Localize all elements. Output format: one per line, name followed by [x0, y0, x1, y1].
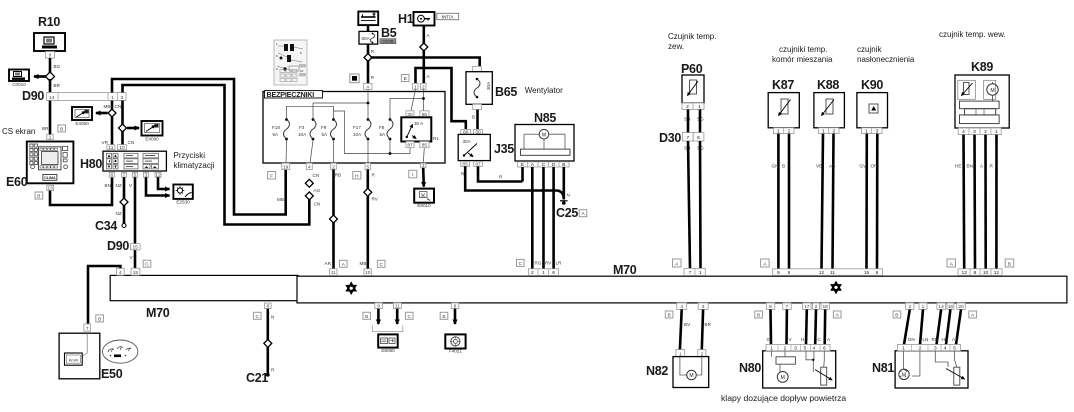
- fuse box top pin 2: [421, 83, 426, 90]
- svg-text:E50: E50: [101, 367, 123, 381]
- wire OR K90 to M70: [871, 134, 879, 269]
- arrow to E4090: [127, 127, 139, 130]
- svg-text:1: 1: [922, 304, 925, 310]
- svg-text:LR: LR: [556, 261, 563, 266]
- svg-text:1: 1: [542, 270, 545, 276]
- junction node on R10 wire: [45, 72, 54, 81]
- svg-text:9: 9: [777, 270, 780, 276]
- svg-text:B: B: [98, 316, 101, 322]
- svg-text:NZ: NZ: [116, 211, 122, 216]
- connector tag B: [665, 311, 673, 319]
- svg-text:2: 2: [686, 104, 689, 110]
- svg-text:18: 18: [823, 304, 829, 310]
- svg-text:B: B: [1008, 261, 1011, 267]
- labels on fan wires: [535, 261, 563, 266]
- sensor P60: [681, 62, 704, 103]
- connector tag B: [1005, 259, 1014, 267]
- svg-text:GV: GV: [860, 164, 868, 169]
- svg-text:4: 4: [308, 164, 311, 170]
- wire B5 junction to B65: [371, 58, 480, 67]
- svg-text:17: 17: [804, 304, 810, 310]
- svg-text:5: 5: [788, 270, 791, 276]
- M70 bottom pins 4 3 N82: [677, 303, 708, 310]
- svg-text:BG: BG: [54, 64, 61, 69]
- label czujnik naslonecznienia: [857, 45, 915, 64]
- svg-text:1: 1: [49, 135, 52, 141]
- junction node on C21 wire: [264, 339, 272, 347]
- svg-text:14: 14: [49, 95, 55, 101]
- svg-text:E60: E60: [6, 175, 28, 189]
- wire arrow to F4021: [454, 309, 457, 324]
- svg-text:M: M: [689, 373, 693, 379]
- svg-text:I: I: [412, 172, 413, 178]
- fuse F8 5A: [379, 118, 393, 140]
- svg-text:M70: M70: [146, 306, 170, 320]
- svg-text:CLIMA: CLIMA: [44, 176, 56, 180]
- M70 top pins 7 1 P60: [684, 268, 705, 276]
- wire DN to N81: [904, 309, 915, 344]
- svg-text:VB: VB: [816, 164, 822, 169]
- junction nodes on fuse pin4 wire: [305, 179, 313, 200]
- wire E60 pin13 to H80 pin6: [50, 177, 112, 205]
- svg-text:4: 4: [944, 346, 947, 352]
- relay J35: [458, 129, 514, 167]
- wire SG P60 to D30: [699, 109, 702, 132]
- svg-text:30A: 30A: [486, 81, 491, 90]
- wire HN to N81: [942, 309, 951, 344]
- svg-text:8: 8: [974, 270, 977, 276]
- wire H80 pin7 to ground C34: [116, 177, 125, 224]
- wire N J35 pin85 to C25: [461, 166, 570, 199]
- svg-text:E4050: E4050: [75, 121, 89, 126]
- svg-text:B: B: [37, 194, 40, 200]
- svg-text:CN: CN: [314, 202, 321, 207]
- M70 top pin 15: [131, 268, 140, 276]
- svg-text:czujnik temp. wew.: czujnik temp. wew.: [939, 30, 1006, 39]
- svg-text:6: 6: [697, 135, 700, 141]
- actuator N80: [739, 345, 836, 389]
- label Przyciski klimatyzacji: [174, 151, 215, 170]
- wire N85 pinA to M70: [531, 167, 534, 269]
- svg-text:85: 85: [422, 143, 428, 149]
- sensor K88: [814, 78, 845, 128]
- harness M70 right segment: [297, 276, 1067, 303]
- svg-text:H: H: [801, 337, 804, 342]
- pin strip of N85: [518, 162, 570, 168]
- wire A to N80: [825, 309, 831, 344]
- pin 1 of E60: [42, 126, 53, 141]
- connector tag F: [268, 172, 276, 180]
- svg-text:NZ: NZ: [116, 183, 122, 188]
- svg-text:VR: VR: [102, 140, 109, 145]
- svg-text:LN: LN: [923, 337, 929, 342]
- svg-text:zew.: zew.: [668, 42, 684, 51]
- connector tag C: [517, 259, 525, 267]
- wire N85 pinC to M70: [542, 167, 545, 269]
- svg-text:komór mieszania: komór mieszania: [772, 55, 833, 64]
- connector tag A: [969, 311, 977, 319]
- svg-text:RV: RV: [545, 261, 552, 266]
- pins 4 3 2 1 of K89: [958, 128, 1001, 135]
- svg-text:M: M: [990, 88, 994, 94]
- svg-text:4: 4: [680, 304, 683, 310]
- wire V to N80: [787, 309, 793, 344]
- svg-text:N81: N81: [872, 361, 894, 375]
- svg-text:E8080: E8080: [381, 348, 395, 353]
- svg-text:F8: F8: [379, 125, 385, 130]
- instrument cluster E50: [59, 333, 123, 381]
- wire D90 pin14 to E60 pin1: [49, 101, 52, 135]
- fuse F3 10A: [298, 118, 316, 140]
- svg-text:H1: H1: [398, 12, 414, 26]
- wire AN to N81: [952, 309, 961, 344]
- wire fuse pin1 loop to J35 pin 86: [416, 68, 466, 129]
- svg-text:C25: C25: [556, 206, 578, 220]
- wire R B5 to fuse pin A: [368, 60, 375, 83]
- pin 6 of H80: [105, 172, 115, 188]
- svg-text:M70: M70: [613, 263, 637, 277]
- svg-text:30A: 30A: [463, 139, 472, 144]
- fuse box top pin A: [364, 83, 372, 90]
- wire D90 pin1 down to H80 pin11: [102, 101, 113, 145]
- connector strip D90: [22, 89, 126, 103]
- fuse F18 5A: [272, 118, 290, 140]
- svg-text:K87: K87: [772, 78, 794, 92]
- sensor display E4090: [142, 121, 163, 142]
- svg-text:AB: AB: [829, 164, 835, 169]
- actuator N81: [872, 345, 968, 389]
- connector tag C: [143, 260, 151, 268]
- svg-text:15: 15: [864, 270, 870, 276]
- svg-text:MB: MB: [360, 261, 367, 266]
- svg-text:nasłonecznienia: nasłonecznienia: [857, 55, 915, 64]
- fuse box bottom pin 1: [421, 163, 426, 169]
- svg-text:CS ekran: CS ekran: [2, 127, 35, 136]
- wire SG D30 to M70: [699, 141, 702, 269]
- sensor K90: [857, 78, 888, 128]
- pin 3 of H80: [144, 172, 149, 178]
- svg-text:RN: RN: [932, 337, 939, 342]
- svg-text:1: 1: [111, 95, 114, 101]
- svg-text:OR: OR: [871, 164, 879, 169]
- pin 7 of H80: [116, 172, 127, 188]
- svg-text:D90: D90: [107, 239, 129, 253]
- svg-text:BN: BN: [967, 164, 973, 169]
- pins 1 2 of K87: [774, 128, 795, 135]
- svg-text:Km/h: Km/h: [69, 358, 78, 363]
- wire SN P60 to D30: [687, 109, 690, 132]
- battery A1: [358, 12, 378, 26]
- svg-text:M: M: [781, 375, 785, 381]
- label Czujnik temp. zew.: [668, 32, 716, 51]
- wire B K87 to M70: [782, 134, 789, 269]
- connector tag A: [579, 210, 587, 218]
- svg-text:N80: N80: [739, 361, 761, 375]
- terminal C21: [246, 371, 270, 385]
- harness M70 left segment: [110, 275, 298, 300]
- wire CN loop D90 pin3 to fuse pin4: [123, 85, 310, 225]
- svg-text:CN: CN: [313, 173, 320, 178]
- wire BR junction to D90: [50, 79, 61, 93]
- svg-text:AN: AN: [952, 337, 958, 342]
- wire R J35 pin87 to N85 pinE: [478, 166, 523, 181]
- fuse F17 10A: [353, 118, 371, 140]
- junction node on RB wire: [330, 215, 338, 223]
- connector tag A: [947, 259, 956, 267]
- fuse box bottom pin 2: [331, 163, 337, 170]
- sensor K89: [955, 60, 1009, 128]
- wire M70 pin4 to E50 pin7: [88, 266, 120, 324]
- internal wiring of fuse box: [286, 89, 424, 163]
- svg-text:czujnik: czujnik: [857, 45, 882, 54]
- svg-text:7: 7: [686, 135, 689, 141]
- svg-text:C010B: C010B: [382, 40, 394, 44]
- wire BG R10 to junction: [50, 58, 61, 74]
- svg-text:K90: K90: [861, 78, 883, 92]
- connector tag C: [377, 260, 385, 268]
- svg-text:RG: RG: [535, 261, 542, 266]
- pins 1 2 of K88: [819, 128, 840, 135]
- diagnostic module R10: [34, 15, 65, 51]
- svg-text:C34: C34: [95, 219, 117, 233]
- pins 1 2 of N82: [676, 350, 706, 358]
- wire BV to N82: [680, 309, 691, 349]
- svg-text:3: 3: [794, 346, 797, 352]
- svg-text:R1: R1: [433, 136, 439, 141]
- wire GN K87 to M70: [772, 134, 779, 269]
- M70 top pin 11: [329, 269, 337, 276]
- black marker box: [350, 74, 359, 83]
- pins 1 3 of K90: [862, 128, 883, 135]
- svg-text:klimatyzacji: klimatyzacji: [174, 161, 215, 170]
- connector tag B: [96, 315, 104, 323]
- sensor K87: [768, 78, 799, 128]
- svg-text:H: H: [355, 173, 359, 179]
- svg-text:10: 10: [983, 270, 989, 276]
- svg-text:G: G: [767, 337, 771, 342]
- wire R K89 to M70: [990, 135, 997, 269]
- svg-text:6: 6: [552, 270, 555, 276]
- svg-text:1: 1: [699, 270, 702, 276]
- svg-text:F18: F18: [272, 125, 280, 130]
- junction node to E4050: [108, 109, 116, 117]
- svg-text:DN: DN: [908, 337, 915, 342]
- svg-text:10A: 10A: [353, 132, 362, 137]
- svg-text:15: 15: [133, 270, 139, 276]
- svg-text:6: 6: [110, 172, 113, 178]
- M70 bottom pins 14 16 20 N81: [937, 303, 965, 310]
- wire arrows to E8080: [372, 309, 403, 332]
- actuator N82: [646, 357, 709, 388]
- svg-text:BN: BN: [105, 183, 111, 188]
- arrow to E4050: [96, 112, 108, 115]
- wire R from B5: [368, 44, 375, 55]
- svg-text:10A: 10A: [298, 132, 307, 137]
- svg-text:GN: GN: [772, 164, 779, 169]
- svg-text:B: B: [442, 314, 445, 320]
- wire N M70 to C21: [268, 309, 275, 374]
- svg-text:1: 1: [698, 104, 701, 110]
- label czujniki temp. komor mieszania: [772, 45, 833, 64]
- svg-text:K88: K88: [817, 78, 839, 92]
- connector D90 pin15: [107, 239, 140, 253]
- fuse F9 5A: [321, 118, 337, 140]
- pin 10 of H80: [118, 145, 127, 151]
- M70 bottom pin 11: [393, 303, 401, 310]
- svg-text:klapy dozujące dopływ powietrz: klapy dozujące dopływ powietrza: [721, 393, 846, 403]
- svg-text:D30: D30: [659, 131, 681, 145]
- svg-text:BV: BV: [684, 322, 691, 327]
- wire fuse pin5 to M70 pin10: [360, 170, 379, 269]
- fuse box bottom pin 19: [282, 163, 290, 170]
- svg-text:9: 9: [49, 53, 52, 59]
- svg-text:H80: H80: [80, 157, 102, 171]
- svg-text:B: B: [365, 314, 368, 320]
- junction dots inside fuse box: [367, 97, 425, 155]
- svg-text:C: C: [255, 314, 259, 320]
- wire SN D30 to M70: [688, 141, 690, 269]
- lamp E2530: [173, 185, 192, 205]
- fuse box bottom pin 5: [365, 163, 371, 170]
- svg-text:B: B: [60, 126, 63, 132]
- gauge oval of E50: [103, 340, 138, 363]
- control unit F4021: [445, 334, 465, 353]
- wire B B65 to J35 pin30: [472, 110, 478, 130]
- pin 12 of H80: [155, 172, 161, 178]
- pin 9 of R10: [46, 52, 55, 59]
- wire N85 pinB to C25: [562, 167, 565, 200]
- wire D90 pin3 down to H80 pin10: [115, 101, 135, 145]
- control panel H80: [80, 151, 166, 171]
- pin 11 of H80: [107, 145, 115, 151]
- svg-text:7: 7: [689, 270, 692, 276]
- wire C to N80: [815, 309, 821, 344]
- svg-text:INT/A: INT/A: [442, 14, 455, 19]
- fuse box bottom pin 4: [306, 163, 312, 170]
- svg-text:HE: HE: [955, 164, 961, 169]
- labels on fuse pin4 wire: [313, 173, 321, 207]
- svg-text:16: 16: [948, 304, 954, 310]
- fuse B65: [466, 66, 517, 109]
- svg-text:5A: 5A: [322, 132, 329, 137]
- svg-text:CN: CN: [115, 104, 122, 109]
- svg-text:14: 14: [938, 304, 944, 310]
- svg-text:B65: B65: [495, 85, 517, 99]
- svg-text:6: 6: [876, 270, 879, 276]
- svg-text:F3: F3: [299, 125, 305, 130]
- wire MB loop D90 pin1 to fuse pin19: [112, 79, 286, 215]
- connector tag B: [58, 125, 66, 132]
- wire LN to N81: [920, 309, 928, 344]
- svg-text:F: F: [270, 173, 273, 179]
- svg-text:5: 5: [366, 164, 369, 170]
- junction node to E4090: [119, 124, 127, 132]
- svg-text:60A: 60A: [362, 36, 371, 41]
- ignition switch H1: [398, 12, 435, 26]
- svg-text:4: 4: [119, 270, 122, 276]
- svg-text:10: 10: [119, 145, 125, 151]
- wire AB K88 to M70: [829, 134, 835, 269]
- svg-text:4: 4: [962, 129, 965, 135]
- svg-text:E2530: E2530: [176, 200, 190, 205]
- svg-text:BR: BR: [705, 322, 712, 327]
- svg-text:5A: 5A: [273, 132, 280, 137]
- svg-text:B: B: [667, 313, 670, 319]
- svg-text:CN: CN: [128, 140, 135, 145]
- svg-text:czujniki temp.: czujniki temp.: [779, 45, 827, 54]
- M70 top pin 10: [364, 269, 372, 276]
- svg-text:10: 10: [365, 270, 371, 276]
- svg-text:D90: D90: [22, 89, 44, 103]
- svg-text:R10: R10: [38, 15, 60, 29]
- M70 bottom pin 8 C21: [265, 303, 272, 310]
- svg-text:AR: AR: [325, 261, 332, 266]
- connector tag C: [405, 312, 413, 320]
- svg-text:12: 12: [819, 270, 825, 276]
- svg-text:11: 11: [331, 270, 336, 276]
- svg-text:C0010: C0010: [12, 82, 26, 87]
- wire fuse pin2 to M70 pin11: [325, 170, 342, 269]
- svg-text:HN: HN: [942, 337, 949, 342]
- wire H80 pin5 to M70 pin15: [130, 177, 136, 268]
- svg-text:2: 2: [531, 270, 534, 276]
- sensor display E4050: [72, 107, 92, 126]
- connector tag A: [761, 259, 770, 267]
- connector tag I: [409, 170, 417, 178]
- wire VB K88 to M70: [816, 134, 823, 269]
- junction node on NZ wire: [120, 198, 128, 206]
- svg-text:F4021: F4021: [449, 349, 462, 354]
- M70 top pins 2 1 6 fan: [529, 269, 559, 276]
- fuse B5: [359, 25, 397, 44]
- M70 top pin strip K89: [958, 269, 1002, 276]
- label INT/A: [437, 13, 459, 19]
- M70 bottom pins 8 7 N80: [766, 303, 791, 310]
- svg-text:2: 2: [332, 164, 335, 170]
- wire H80 pin12 arrow to E2530: [158, 177, 170, 189]
- fuse box top pin 1: [413, 83, 418, 90]
- fuse box BEZPIECZNIKI: [263, 90, 445, 163]
- svg-text:20: 20: [958, 304, 964, 310]
- svg-text:C21: C21: [246, 371, 268, 385]
- svg-text:3: 3: [702, 304, 705, 310]
- svg-text:B5: B5: [381, 26, 397, 40]
- svg-text:B: B: [782, 164, 785, 169]
- svg-text:3: 3: [973, 129, 976, 135]
- wire GV K90 to M70: [860, 134, 868, 269]
- svg-text:F17: F17: [353, 125, 361, 130]
- svg-text:7: 7: [86, 326, 89, 332]
- splice symbol left: [347, 283, 356, 293]
- svg-text:M: M: [902, 373, 906, 379]
- svg-text:30 A: 30 A: [414, 121, 424, 126]
- wire H to N80: [801, 309, 807, 344]
- radio unit E8080: [378, 334, 398, 353]
- svg-text:B: B: [404, 76, 407, 82]
- connector tag H: [353, 172, 361, 180]
- connector tag A: [833, 311, 841, 319]
- compressor E8010: [414, 189, 434, 209]
- svg-text:12: 12: [994, 270, 1000, 276]
- ground point C34: [95, 219, 126, 233]
- connector tag B: [893, 311, 901, 319]
- display unit E60: [6, 142, 73, 190]
- svg-text:15: 15: [133, 245, 139, 251]
- wire HE K89 to M70: [955, 135, 964, 269]
- svg-text:N: N: [567, 193, 570, 198]
- svg-text:J35: J35: [494, 142, 514, 156]
- connector legend inset: [274, 40, 307, 85]
